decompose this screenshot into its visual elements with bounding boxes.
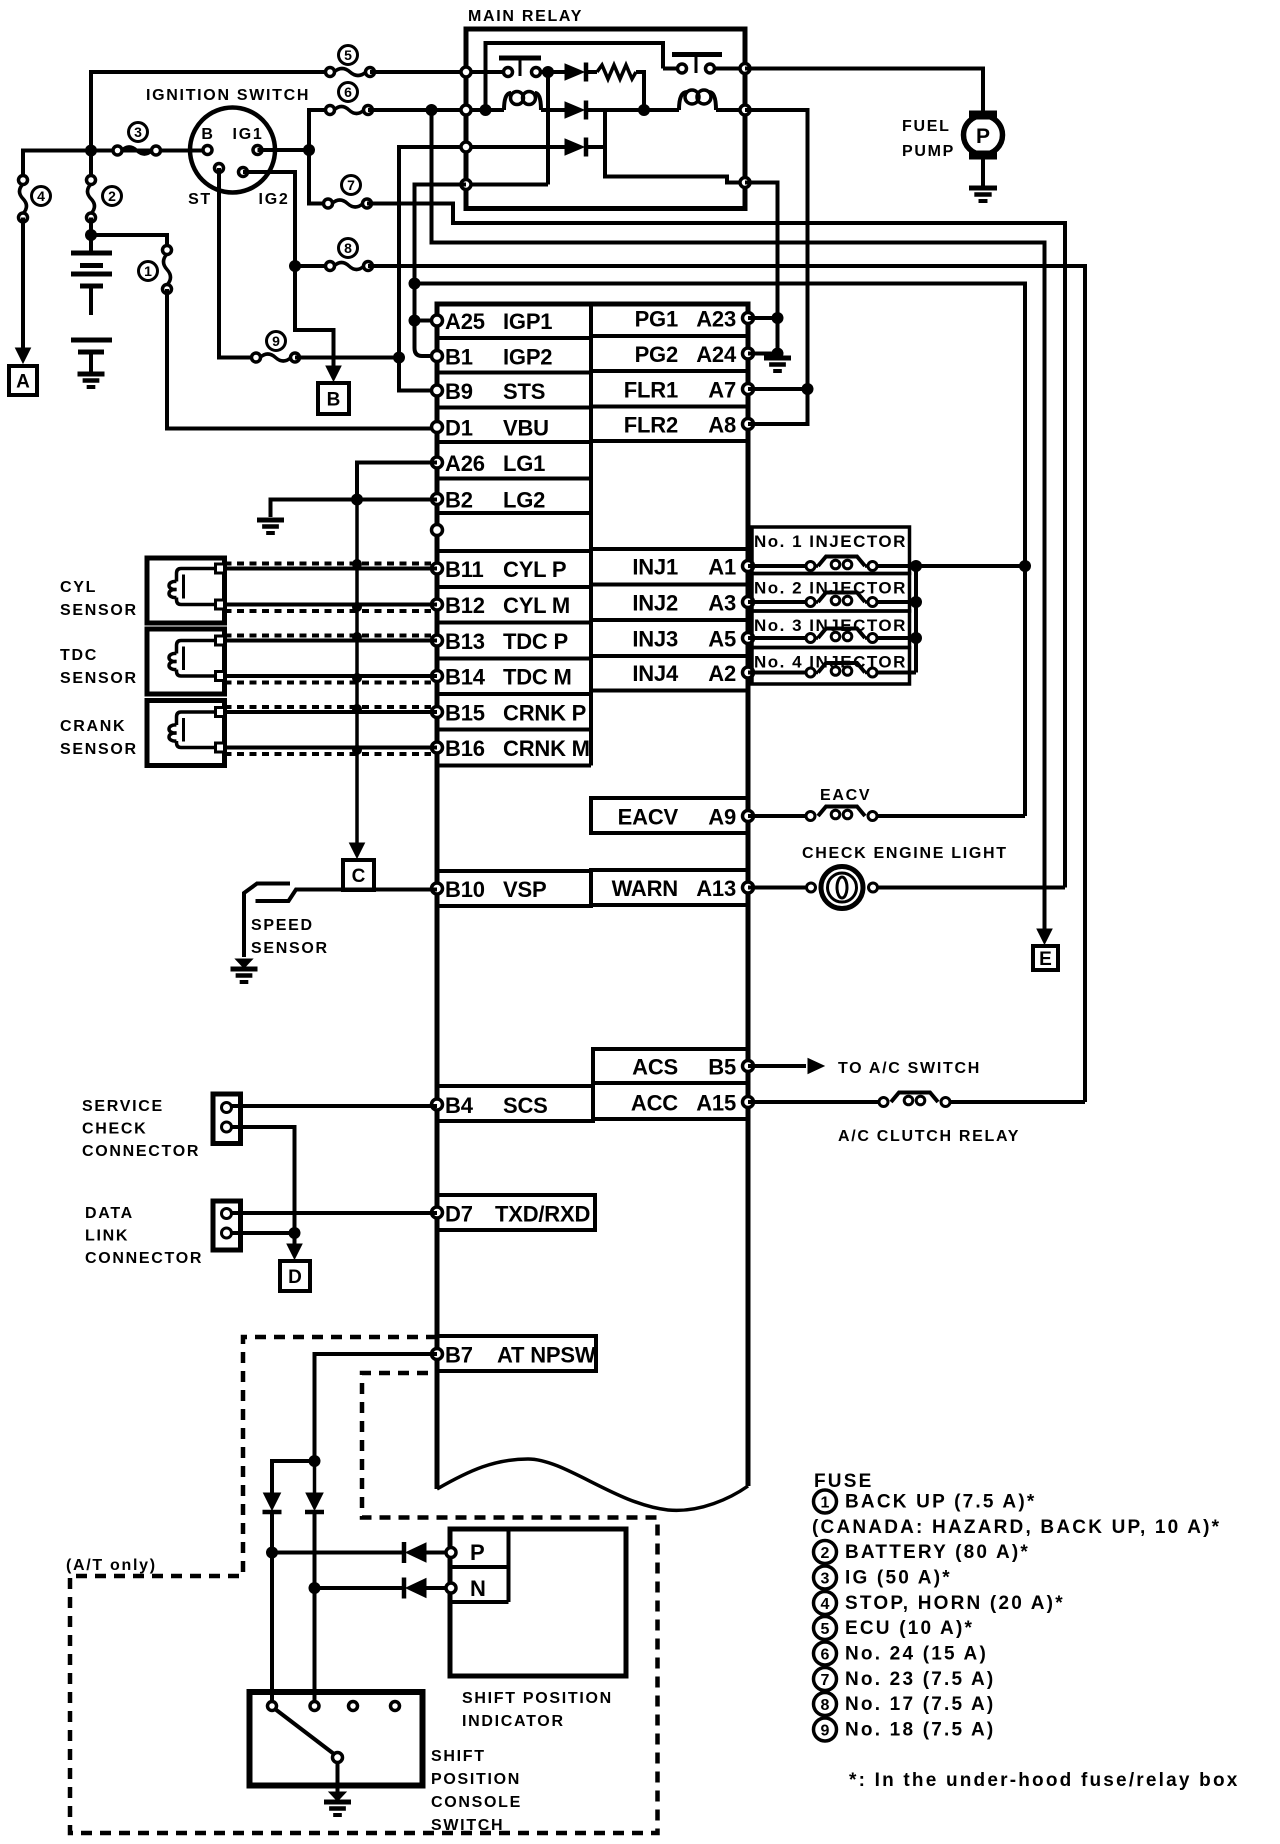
TDC sensor: [147, 629, 225, 694]
svg-text:STOP, HORN (20 A)*: STOP, HORN (20 A)*: [845, 1593, 1065, 1614]
svg-text:2: 2: [821, 1545, 830, 1562]
junction shield 637: [352, 632, 362, 642]
wire P diode to console switch: [270, 1513, 274, 1706]
connector ref box D: [280, 1261, 310, 1291]
junction shield 709: [352, 704, 362, 714]
wire resistor to coil node: [636, 72, 644, 110]
svg-text:A26: A26: [445, 451, 485, 476]
fuse legend item No. 24 15 A: [814, 1642, 837, 1665]
svg-text:MAIN RELAY: MAIN RELAY: [468, 8, 583, 25]
wire IG1 to junction: [258, 148, 310, 152]
svg-text:B15: B15: [445, 701, 485, 726]
svg-text:*: In the under-hood fuse/rela: *: In the under-hood fuse/relay box: [849, 1770, 1240, 1791]
CRANK sensor: [147, 701, 225, 766]
wire: battery+ feed to fuse 5 line: [91, 72, 330, 151]
svg-text:No. 23 (7.5 A): No. 23 (7.5 A): [845, 1669, 995, 1690]
svg-text:SENSOR: SENSOR: [60, 670, 138, 687]
junction shield 564: [352, 559, 362, 569]
fuse 3 (IG fuse): [113, 146, 122, 155]
ignition terminal IG2: [239, 168, 248, 177]
console switch blade: [275, 1709, 334, 1754]
ECU left column cell lines: [437, 336, 591, 340]
svg-text:B12: B12: [445, 593, 485, 618]
svg-text:SWITCH: SWITCH: [431, 1817, 504, 1834]
indicator pin P: [446, 1548, 456, 1558]
wire ACS B5 to A/C switch: [748, 1064, 806, 1068]
wire PG1 A23 stub: [748, 316, 778, 320]
wire ignition B to junction: [91, 149, 208, 153]
junction STS: [393, 352, 405, 364]
svg-text:No. 1 INJECTOR: No. 1 INJECTOR: [754, 532, 907, 551]
svg-text:4: 4: [37, 188, 45, 204]
wire fuse8 long line to A/C clutch relay: [368, 266, 1085, 1102]
svg-text:SHIFT POSITION: SHIFT POSITION: [462, 1690, 613, 1707]
relay coil 1: [504, 93, 511, 110]
CRANK sensor wires to ECU: [225, 710, 438, 714]
CYL sensor: [147, 558, 225, 623]
svg-text:A13: A13: [696, 876, 736, 901]
ground ECU power ground: [764, 356, 791, 361]
svg-text:A3: A3: [708, 591, 736, 616]
svg-text:VBU: VBU: [503, 416, 549, 441]
wire ACC pin to relay coil: [748, 1100, 879, 1104]
fuse legend item No. 23 7.5 A: [814, 1668, 837, 1691]
main relay terminal T2: [461, 105, 471, 115]
wire left branch to fuse 4: [23, 151, 91, 181]
fuse 8 (No.17 fuse): [326, 262, 335, 271]
wire battery to fuse 1: [91, 235, 167, 250]
svg-text:E: E: [1039, 949, 1052, 970]
data link connector: [213, 1201, 241, 1250]
svg-text:N: N: [470, 1576, 486, 1601]
ECU bottom wavy edge: [437, 1459, 748, 1510]
arrowhead to E: [1037, 929, 1052, 944]
svg-text:INJ4: INJ4: [632, 661, 679, 686]
svg-text:PG2: PG2: [635, 342, 678, 367]
ground fuel pump ground: [969, 186, 997, 191]
svg-text:No. 18 (7.5 A): No. 18 (7.5 A): [845, 1720, 995, 1741]
svg-text:SENSOR: SENSOR: [251, 940, 329, 957]
wire IG2 to fuse 8: [243, 172, 295, 266]
fuse legend item No. 18 7.5 A: [814, 1718, 837, 1741]
No. 1 injector: [752, 527, 910, 574]
TDC sensor coil: [177, 641, 216, 654]
console switch terminal 4: [391, 1702, 400, 1711]
CYL sensor wires to ECU: [225, 567, 438, 571]
svg-text:CYL M: CYL M: [503, 593, 570, 618]
svg-text:SENSOR: SENSOR: [60, 741, 138, 758]
junction injector 3 bus: [910, 632, 922, 644]
ground logic ground: [257, 518, 284, 523]
svg-text:PUMP: PUMP: [902, 143, 955, 160]
svg-text:9: 9: [821, 1723, 830, 1740]
svg-text:1: 1: [821, 1495, 830, 1512]
junction LG: [351, 494, 363, 506]
wire junction up to main relay T3: [399, 147, 466, 358]
ignition switch body: [190, 108, 275, 193]
main relay terminal T3: [461, 142, 471, 152]
ECU connector outline: [437, 304, 748, 1489]
ignition terminal IG1: [253, 146, 262, 155]
svg-text:B7: B7: [445, 1343, 473, 1368]
svg-text:VSP: VSP: [503, 877, 546, 902]
wire relay coil to fuse8 line: [950, 1100, 1085, 1104]
wire fuse9 to junction: [295, 356, 399, 360]
arrowhead to C: [350, 843, 365, 858]
svg-text:B: B: [201, 126, 214, 143]
coil symbol injector 3 coil: [818, 629, 865, 639]
svg-text:CRNK P: CRNK P: [503, 701, 586, 726]
svg-text:INJ1: INJ1: [632, 555, 678, 580]
wire EACV pin to coil: [748, 814, 806, 818]
fuse 9 (No.18 fuse): [252, 353, 261, 362]
fuse 4 (STOP HORN fuse): [19, 176, 28, 185]
shield drain wire down to connector C: [355, 500, 359, 845]
arrowhead to D: [287, 1244, 302, 1259]
svg-text:LINK: LINK: [85, 1228, 129, 1245]
console switch wiper: [333, 1753, 343, 1763]
coil symbol injector 4 coil: [818, 663, 865, 673]
svg-text:ACS: ACS: [632, 1055, 678, 1080]
ECU spare pin: [432, 525, 443, 536]
svg-text:9: 9: [272, 333, 280, 349]
ECU cell D7 TXD/RXD: [437, 1195, 595, 1230]
wire EACV coil to IGP bus: [877, 814, 1025, 818]
junction IGP injector feed: [409, 278, 421, 290]
svg-text:7: 7: [347, 177, 355, 193]
main relay box: [466, 29, 745, 209]
svg-text:(A/T only): (A/T only): [66, 1557, 157, 1574]
junction PG2: [772, 348, 784, 360]
A/T only dashed outline: [70, 1337, 658, 1833]
diode P branch: [264, 1493, 281, 1510]
diode into N: [402, 1578, 407, 1599]
svg-text:LG2: LG2: [503, 488, 545, 513]
svg-text:PG1: PG1: [635, 307, 678, 332]
wire N line to indicator: [315, 1586, 405, 1590]
svg-text:B10: B10: [445, 877, 485, 902]
svg-text:SHIFT: SHIFT: [431, 1748, 486, 1765]
ECU right column cell lines: [591, 334, 748, 338]
main relay diode 3 row: [466, 145, 565, 149]
main relay coil row: [466, 108, 504, 112]
svg-text:CYL: CYL: [60, 579, 97, 596]
ECU column divider: [589, 304, 593, 766]
wire A25 pin stub: [415, 319, 438, 323]
svg-text:7: 7: [821, 1672, 830, 1689]
junction battery/ignition B: [85, 145, 97, 157]
shift position console switch box: [250, 1692, 423, 1786]
svg-text:A25: A25: [445, 309, 485, 334]
wire IGP feed to injector resistor bus: [415, 284, 1026, 817]
svg-text:B5: B5: [708, 1055, 736, 1080]
svg-text:ACC: ACC: [631, 1091, 678, 1116]
svg-text:FLR2: FLR2: [624, 413, 678, 438]
junction IG1: [303, 144, 315, 156]
svg-text:A8: A8: [708, 413, 736, 438]
svg-text:B4: B4: [445, 1093, 474, 1118]
ECU cell EACV A9: [591, 798, 748, 833]
fuel pump motor: [969, 111, 997, 120]
svg-text:(CANADA: HAZARD, BACK UP, 10 A: (CANADA: HAZARD, BACK UP, 10 A)*: [812, 1517, 1221, 1538]
wire fuse4 down to connector A: [21, 218, 25, 349]
connector ref box B: [318, 383, 349, 414]
svg-text:INJ3: INJ3: [632, 627, 678, 652]
svg-text:A15: A15: [696, 1091, 736, 1116]
svg-text:D1: D1: [445, 416, 473, 441]
svg-text:TO A/C SWITCH: TO A/C SWITCH: [838, 1060, 981, 1077]
CRANK sensor coil: [177, 712, 216, 725]
ECU cell B7 AT NPSW: [437, 1336, 596, 1371]
connector ref box C: [343, 860, 374, 890]
wire IG1 up to fuse 6: [309, 110, 330, 150]
svg-text:A1: A1: [708, 555, 736, 580]
svg-text:WARN: WARN: [612, 876, 678, 901]
svg-text:1: 1: [144, 263, 152, 279]
coil symbol A/C clutch relay coil: [891, 1093, 938, 1103]
wire lamp to fuse7 line: [877, 886, 1065, 890]
main relay terminal T1: [461, 67, 471, 77]
diode main relay D2: [565, 102, 584, 118]
svg-text:IGNITION SWITCH: IGNITION SWITCH: [146, 87, 310, 104]
check engine lamp: [821, 867, 863, 909]
svg-text:B2: B2: [445, 488, 473, 513]
svg-text:STS: STS: [503, 379, 545, 404]
svg-text:SERVICE: SERVICE: [82, 1098, 164, 1115]
relay coil 2: [679, 92, 687, 110]
svg-text:No. 24 (15 A): No. 24 (15 A): [845, 1644, 988, 1665]
svg-text:DATA: DATA: [85, 1205, 134, 1222]
svg-text:No. 2 INJECTOR: No. 2 INJECTOR: [754, 579, 907, 598]
svg-text:B16: B16: [445, 736, 485, 761]
svg-text:TDC P: TDC P: [503, 629, 568, 654]
wire B2 LG2 to ground: [271, 500, 438, 518]
svg-text:AT NPSW: AT NPSW: [497, 1343, 596, 1368]
wire battery vertical through fuse 2: [89, 151, 93, 181]
fuse legend item No. 17 7.5 A: [814, 1693, 837, 1716]
junction P line: [266, 1547, 278, 1559]
svg-text:B1: B1: [445, 345, 473, 370]
wire data link to junction D: [232, 1231, 295, 1235]
ECU cells ACS B5 / ACC A15: [593, 1049, 748, 1119]
ECU cell B10 VSP: [437, 871, 591, 906]
svg-text:ECU (10 A)*: ECU (10 A)*: [845, 1618, 974, 1639]
svg-text:B13: B13: [445, 629, 485, 654]
svg-text:8: 8: [821, 1697, 830, 1714]
junction battery top: [85, 229, 97, 241]
svg-text:IG1: IG1: [233, 126, 264, 143]
svg-text:EACV: EACV: [618, 805, 679, 830]
junction shield 750: [352, 745, 362, 755]
svg-text:ST: ST: [188, 191, 212, 208]
svg-text:IG (50 A)*: IG (50 A)*: [845, 1568, 952, 1589]
svg-text:D: D: [288, 1267, 302, 1288]
svg-text:5: 5: [821, 1621, 830, 1638]
junction FLR1: [802, 383, 814, 395]
svg-text:6: 6: [344, 84, 352, 100]
junction injector bus top: [1019, 560, 1031, 572]
No. 2 injector: [752, 574, 910, 612]
fuse 2 (BATTERY fuse): [87, 176, 96, 185]
svg-text:INJ2: INJ2: [632, 591, 678, 616]
junction injector 1 bus: [910, 560, 922, 572]
wire IG1 down to fuse 7: [309, 150, 328, 204]
main relay contact 2: [663, 67, 677, 71]
diode into P: [402, 1542, 407, 1563]
svg-text:SPEED: SPEED: [251, 917, 314, 934]
fuse legend item BATTERY 80 A: [814, 1541, 837, 1564]
resistor main relay: [586, 70, 597, 74]
fuse legend item ECU 10 A: [814, 1617, 837, 1640]
indicator pin N: [446, 1583, 456, 1593]
main relay T4 row: [466, 183, 548, 187]
svg-text:A: A: [16, 372, 30, 393]
svg-text:IGP2: IGP2: [503, 345, 552, 370]
svg-text:CONNECTOR: CONNECTOR: [85, 1250, 203, 1267]
ground console switch ground: [329, 1792, 346, 1801]
wire contact1 to T4 row: [546, 72, 550, 185]
svg-text:CYL P: CYL P: [503, 557, 566, 582]
svg-text:EACV: EACV: [820, 787, 871, 804]
console switch terminal 2: [310, 1702, 319, 1711]
wire wiper to ground: [336, 1763, 340, 1793]
main relay contact 1: [466, 70, 504, 74]
wire fuel pump to ground: [981, 155, 985, 186]
fuse 6 (No.24 fuse): [326, 106, 335, 115]
svg-text:8: 8: [344, 240, 352, 256]
svg-text:SENSOR: SENSOR: [60, 602, 138, 619]
svg-text:B: B: [327, 390, 341, 411]
svg-text:FLR1: FLR1: [624, 378, 678, 403]
junction AT diodes: [309, 1455, 321, 1467]
svg-text:BATTERY (80 A)*: BATTERY (80 A)*: [845, 1542, 1030, 1563]
svg-text:B11: B11: [445, 557, 484, 582]
svg-text:3: 3: [134, 124, 142, 140]
svg-text:CRANK: CRANK: [60, 718, 126, 735]
svg-text:SCS: SCS: [503, 1093, 548, 1118]
main relay terminal R1: [740, 64, 750, 74]
svg-text:POSITION: POSITION: [431, 1771, 521, 1788]
svg-text:C: C: [352, 866, 366, 887]
wire main relay R2 to FLR1/FLR2: [745, 110, 808, 424]
fuse legend item IG 50 A: [814, 1566, 837, 1589]
main relay terminal R3: [740, 178, 750, 188]
junction N line: [309, 1582, 321, 1594]
speed sensor switch: [256, 890, 438, 902]
wire fuse5 to main relay T1: [370, 70, 466, 74]
wire main relay T4 to ECU IGP pins: [415, 185, 467, 357]
svg-text:5: 5: [344, 47, 352, 63]
wire main relay R3 to PG1/PG2 ground: [745, 183, 778, 354]
coil symbol EACV coil: [818, 807, 865, 817]
junction fuse6 line / E branch: [426, 104, 438, 116]
svg-text:FUEL: FUEL: [902, 118, 951, 135]
arrowhead to A/C switch: [808, 1059, 824, 1074]
junction shield 678: [352, 673, 362, 683]
wire B7 AT NPSW down to diodes: [315, 1354, 438, 1461]
fuse 1 (BACK UP fuse): [163, 246, 172, 255]
svg-text:TDC: TDC: [60, 647, 98, 664]
junction coil feed: [638, 104, 650, 116]
junction shield 607: [352, 602, 362, 612]
svg-text:CRNK M: CRNK M: [503, 736, 590, 761]
svg-text:3: 3: [821, 1571, 830, 1588]
fuse 7 (No.23 fuse): [324, 199, 333, 208]
wire fuse6 branch down and right to connector E: [432, 110, 1045, 930]
svg-text:BACK UP (7.5 A)*: BACK UP (7.5 A)*: [845, 1492, 1036, 1513]
svg-text:A5: A5: [708, 627, 736, 652]
svg-text:A9: A9: [708, 805, 736, 830]
svg-text:A/C CLUTCH RELAY: A/C CLUTCH RELAY: [838, 1128, 1020, 1145]
connector ref box A: [9, 366, 37, 395]
svg-text:A23: A23: [696, 307, 736, 332]
ground battery ground: [89, 352, 93, 374]
console switch terminal 3: [349, 1702, 358, 1711]
wire WARN pin to lamp: [748, 886, 806, 890]
svg-text:A24: A24: [696, 342, 737, 367]
wire D2/D3 output to R3: [605, 110, 745, 183]
diode main relay D3: [565, 139, 584, 155]
wire P line to indicator: [272, 1551, 404, 1555]
wire service check to B4 SCS: [232, 1104, 438, 1108]
console switch terminal 1: [268, 1702, 277, 1711]
svg-text:TDC M: TDC M: [503, 665, 572, 690]
No. 4 injector: [752, 648, 910, 685]
junction IG2/fuse8: [289, 260, 301, 272]
wire N diode to console switch: [313, 1513, 317, 1706]
wire fuse7 long line to check engine light: [367, 204, 1065, 888]
shift position indicator box: [450, 1529, 626, 1676]
service check connector: [213, 1094, 241, 1144]
wire A26 LG1 to ground drain: [357, 463, 437, 500]
wire PG2 A24 stub: [748, 352, 778, 356]
fuse legend item STOP, HORN 20 A: [814, 1592, 837, 1615]
junction T2 node: [480, 104, 492, 116]
ignition terminal ST: [215, 164, 224, 173]
TDC sensor wires to ECU: [225, 639, 438, 643]
wire fuse1 to ECU D1 VBU: [167, 289, 437, 429]
svg-text:CONSOLE: CONSOLE: [431, 1794, 522, 1811]
CYL sensor coil: [177, 569, 216, 582]
wire to P diode: [272, 1461, 315, 1493]
ECU cell WARN A13: [591, 870, 748, 905]
svg-text:D7: D7: [445, 1202, 473, 1227]
diode main relay D1: [565, 64, 584, 80]
wire service check to connector D: [232, 1127, 295, 1233]
arrowhead to A: [16, 348, 31, 363]
svg-text:TXD/RXD: TXD/RXD: [495, 1202, 590, 1227]
svg-text:LG1: LG1: [503, 451, 545, 476]
junction A25: [409, 315, 421, 327]
wire fuse6 to main relay T2: [368, 108, 466, 112]
svg-text:P: P: [470, 1540, 484, 1565]
coil symbol injector 1 coil: [818, 557, 865, 567]
main relay terminal R2: [740, 105, 750, 115]
junction PG1: [772, 312, 784, 324]
svg-text:B9: B9: [445, 379, 473, 404]
svg-text:P: P: [976, 125, 990, 148]
wire FLR1 A7 stub: [748, 387, 808, 391]
svg-text:INDICATOR: INDICATOR: [462, 1713, 565, 1730]
main relay terminal T4: [461, 180, 471, 190]
svg-text:2: 2: [108, 188, 116, 204]
junction D branch: [289, 1227, 301, 1239]
wire junction to ECU B9 STS: [399, 358, 437, 391]
fuse legend item BACK UP 7.5 A: [814, 1490, 837, 1513]
svg-text:CHECK: CHECK: [82, 1121, 147, 1138]
svg-text:CHECK ENGINE LIGHT: CHECK ENGINE LIGHT: [802, 845, 1008, 862]
ground speed sensor ground: [236, 959, 253, 968]
